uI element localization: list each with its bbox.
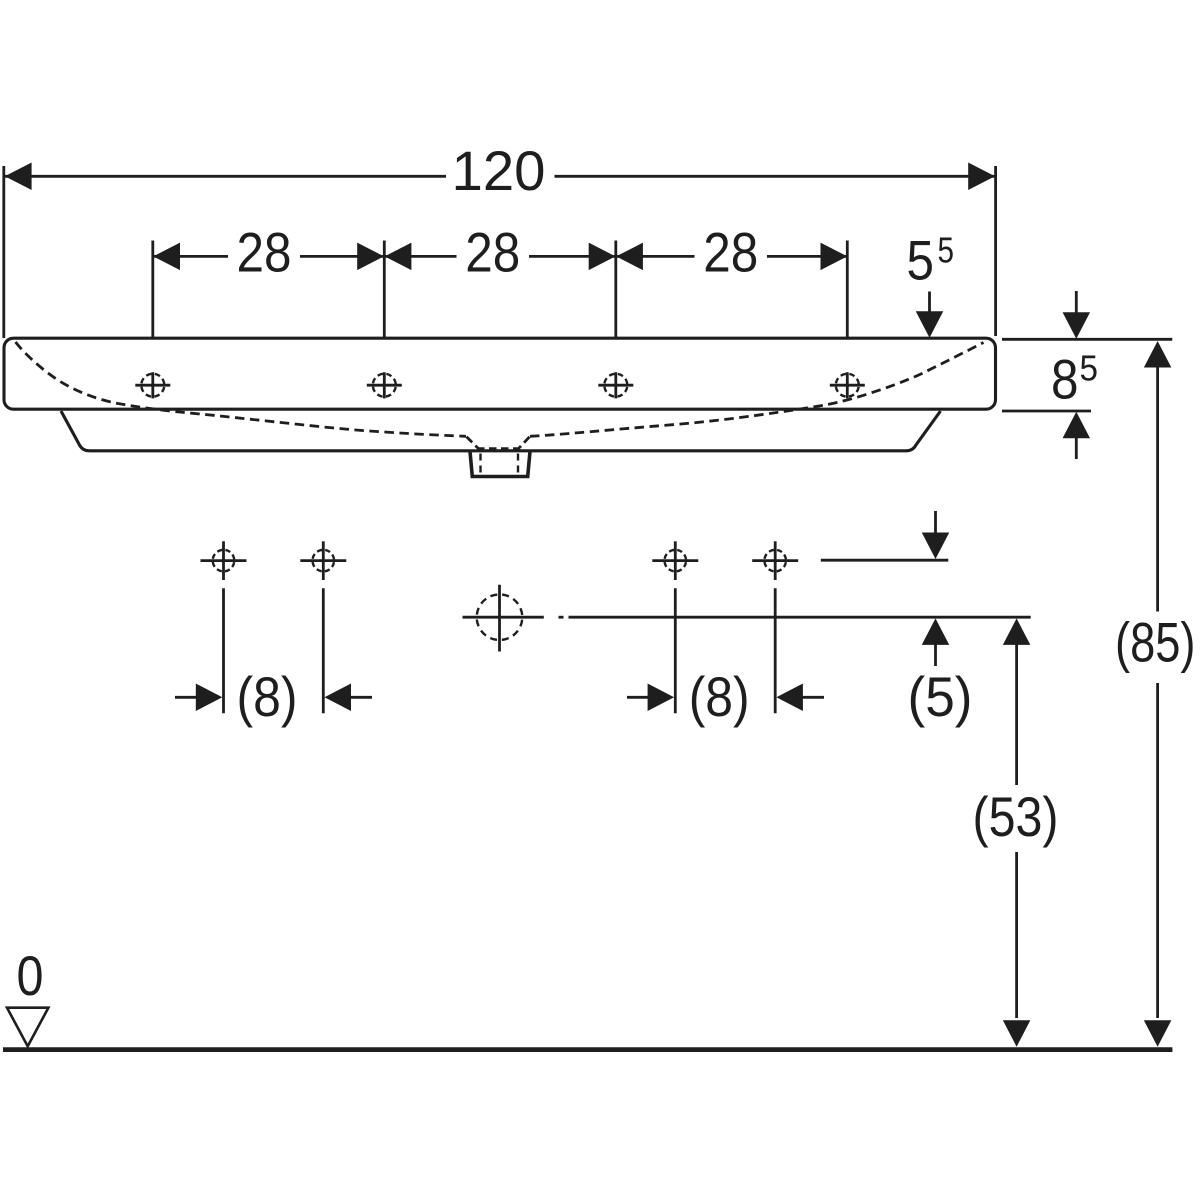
- dim (5): lower arrow stem: [934, 642, 937, 666]
- svg-text:(85): (85): [1115, 612, 1196, 674]
- dim 120: right arrowhead: [968, 163, 995, 191]
- dim (85): lower stem: [1156, 683, 1159, 1018]
- svg-text:0: 0: [17, 945, 44, 1007]
- drain funnel hidden left diagonal: [467, 437, 479, 449]
- dim 8.5: upper arrowhead down: [1063, 312, 1091, 339]
- dim 120: left arrowhead: [5, 163, 32, 191]
- dim 28: line seg d: [767, 255, 847, 258]
- dim 8.5: lower arrowhead up: [1063, 412, 1091, 439]
- hidden bowl contour dashed left part: [16, 342, 467, 436]
- dim (8) left: right arrowhead: [325, 684, 352, 712]
- drain centerline cross: [463, 585, 544, 652]
- dim 28: arrowhead pair at tap2: [357, 243, 384, 271]
- mounting hole cross 1: [201, 541, 247, 580]
- hidden bowl contour dashed right part: [530, 343, 984, 437]
- mounting hole extension line 1: [222, 588, 225, 713]
- dim 28: arrowhead right at tap4: [821, 243, 848, 271]
- dim 5.5: leader arrow stem: [928, 292, 931, 317]
- dim 28: extension line tap3: [614, 241, 617, 338]
- dim (85): top arrowhead up: [1144, 341, 1172, 368]
- dim (85): bottom arrowhead down: [1144, 1020, 1172, 1047]
- svg-text:5: 5: [907, 230, 935, 292]
- svg-text:(5): (5): [908, 666, 973, 728]
- dim 5.5: leader arrowhead down: [916, 311, 944, 338]
- mounting hole extension line 2: [322, 588, 325, 713]
- drain funnel hidden bottom: [477, 447, 520, 450]
- dim 28: arrowhead pair at tap3: [589, 243, 616, 271]
- mounting hole cross 4: [752, 541, 798, 580]
- dim 28: line seg c: [529, 255, 695, 258]
- drain outlet hidden inner wall right: [517, 454, 519, 476]
- svg-text:28: 28: [465, 222, 520, 284]
- tap hole cross 2: [367, 372, 402, 398]
- dim 8.5: upper arrow stem: [1075, 291, 1078, 317]
- dim 28: extension line tap2: [383, 241, 386, 338]
- floor line: [3, 1047, 1172, 1052]
- svg-text:8: 8: [1051, 349, 1079, 411]
- tap hole cross 1: [135, 372, 170, 398]
- dim 8.5: upper reference line: [1002, 338, 1172, 341]
- dim (8) right: left arrowhead: [648, 684, 675, 712]
- dim (5): upper arrow stem: [934, 511, 937, 536]
- mounting hole extension line 3: [674, 588, 677, 713]
- dim (53): lower stem: [1015, 852, 1018, 1018]
- dim (5): upper arrowhead down: [922, 533, 950, 560]
- svg-text:(53): (53): [973, 786, 1059, 848]
- dim (8) left: left arrowhead: [196, 684, 223, 712]
- drain centerline short dash: [559, 616, 564, 619]
- datum zero triangle: [7, 1008, 48, 1047]
- dim (53): bottom arrowhead down: [1003, 1020, 1031, 1047]
- tap hole cross 3: [598, 372, 633, 398]
- dim (8) left: right arrow stem: [349, 696, 372, 699]
- dim 8.5: lower arrow stem: [1075, 435, 1078, 459]
- dim (8) left: left arrow stem: [175, 696, 198, 699]
- svg-text:120: 120: [452, 140, 546, 202]
- dim (53): upper stem: [1015, 642, 1018, 785]
- dim (8) right: left arrow stem: [627, 696, 650, 699]
- washbasin slab outline: [4, 338, 996, 409]
- dim 120: right extension line: [994, 166, 997, 336]
- drain outlet box: [470, 451, 530, 476]
- dim 120: dimension line right segment: [555, 175, 995, 178]
- drain funnel hidden right diagonal: [519, 437, 530, 449]
- dim (8) right: right arrow stem: [801, 696, 824, 699]
- svg-text:28: 28: [237, 222, 292, 284]
- dim 28: arrowhead left at tap1: [153, 243, 180, 271]
- mounting hole cross 2: [300, 541, 346, 580]
- dim (8) right: right arrowhead: [776, 684, 803, 712]
- svg-text:(8): (8): [237, 666, 298, 728]
- svg-text:5: 5: [1080, 348, 1099, 389]
- dim 28: line seg a: [153, 255, 228, 258]
- dim (53): top arrowhead up: [1003, 618, 1031, 645]
- dim 28: extension line tap1: [151, 241, 154, 338]
- dim 28: line seg b: [300, 255, 457, 258]
- mounting hole extension line 4: [774, 588, 777, 713]
- dim (85): upper stem: [1156, 364, 1159, 612]
- drain centerline extended: [569, 616, 1031, 619]
- mounting hole cross 3: [652, 541, 698, 580]
- svg-text:5: 5: [938, 229, 955, 270]
- dim 120: left extension line: [2, 166, 5, 338]
- svg-text:(8): (8): [689, 666, 750, 728]
- dim 28: extension line tap4: [846, 241, 849, 338]
- svg-text:28: 28: [703, 222, 758, 284]
- dim 120: dimension line left segment: [5, 175, 446, 178]
- dim (5): lower arrowhead up: [922, 618, 950, 645]
- basin lower body outline: [61, 411, 941, 451]
- dim 8.5: lower reference line: [1002, 410, 1091, 413]
- dim (5): upper reference line: [821, 559, 949, 562]
- tap hole cross 4: [830, 372, 865, 398]
- drain outlet hidden inner wall left: [479, 454, 481, 476]
